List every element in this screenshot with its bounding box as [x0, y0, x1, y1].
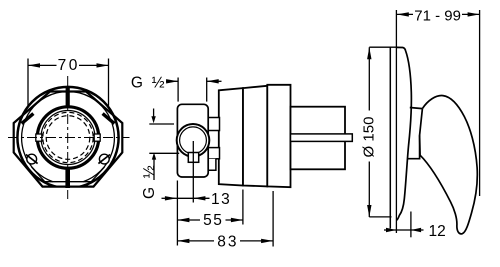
- dim O150 tick bottom: [369, 216, 391, 218]
- spigot tab: [188, 153, 198, 163]
- inlet axis line bottom: [149, 152, 179, 154]
- dim 13 left arrow shaft: [162, 197, 178, 199]
- union nut circle inner: [180, 127, 207, 154]
- nut axis line 13: [192, 141, 194, 203]
- dashed circle inner: [46, 116, 90, 160]
- dim 12 line: [396, 229, 411, 231]
- right screw slot: [98, 155, 110, 164]
- dim 71-99 line left: [396, 13, 413, 15]
- dim O150 tick top: [369, 46, 396, 48]
- dim 12 left arrow shaft: [384, 229, 396, 231]
- inlet top down-arrow head: [151, 116, 155, 123]
- inner hub circle thin: [41, 111, 95, 165]
- right key rectangle: [94, 134, 100, 141]
- dim 83 line: [177, 240, 214, 242]
- casing section 3: [267, 85, 290, 187]
- inner hub circle thick: [37, 107, 98, 168]
- dim 70 extension right: [108, 59, 110, 106]
- dashed circle outer: [43, 112, 93, 162]
- spindle: [291, 134, 353, 142]
- dim 55 right arrow head: [231, 218, 243, 222]
- horizontal centerline: [8, 137, 130, 139]
- svg-text:G ½: G ½: [131, 75, 167, 92]
- dim 70 line right: [79, 64, 109, 66]
- G1/2 top arrow right head: [207, 79, 219, 83]
- dim 71-99 arrow left: [397, 12, 409, 16]
- circle bottom sliver eraser: [53, 188, 83, 192]
- dim O150 line top: [368, 47, 370, 110]
- middle view dimensions: [149, 78, 273, 247]
- svg-text:G ½: G ½: [141, 163, 158, 199]
- dim 83 left arrow head: [177, 239, 189, 243]
- dim 12 arrow right: [411, 228, 421, 232]
- left screw slot: [26, 155, 38, 164]
- left key rectangle: [36, 134, 42, 141]
- dim 55 line: [177, 219, 200, 221]
- dimension 70: [28, 59, 109, 106]
- dim 55 left arrow head: [177, 218, 189, 222]
- svg-text:Ø 150: Ø 150: [360, 117, 377, 158]
- right view dimensions: [369, 10, 479, 237]
- outer circle (escutcheon rim): [17, 87, 118, 188]
- G1/2 top arrow left shaft: [166, 80, 178, 82]
- extension 55 right: [242, 190, 244, 225]
- extension 177: [176, 181, 178, 246]
- dim 70 line left: [28, 64, 57, 66]
- casing section 1: [219, 88, 243, 185]
- dim 13 right arrow head: [193, 196, 205, 200]
- dim 12 arrow left: [386, 228, 396, 232]
- dim O150 arrow top: [367, 47, 371, 59]
- svg-text:83: 83: [217, 233, 238, 250]
- svg-text:71 - 99: 71 - 99: [414, 7, 461, 24]
- right screw: [99, 154, 109, 164]
- plate back line / 71-99 left extension: [395, 10, 397, 233]
- G1/2 top arrow left head: [166, 79, 178, 83]
- bottom connector bar: [208, 148, 220, 159]
- casing section 2: [243, 86, 267, 187]
- inlet bottom up-arrow head: [152, 153, 156, 160]
- G1/2 top dim extension left: [177, 78, 179, 102]
- dim 71-99 line right: [462, 13, 480, 15]
- inlet axis line top: [149, 123, 174, 125]
- dim 70 extension left: [27, 59, 29, 106]
- lower elbow tab: [204, 159, 216, 171]
- dim 70 arrow left: [28, 63, 40, 67]
- svg-text:13: 13: [211, 191, 231, 208]
- upper-right chamfer emphasis bar: [103, 114, 115, 124]
- octagonal flange: [14, 92, 123, 187]
- union nut circle outer: [177, 124, 210, 157]
- upper-left chamfer emphasis bar: [22, 114, 34, 124]
- second circle (escutcheon inner rim, open at bottom flat): [22, 91, 115, 181]
- inlet top arrow shaft: [153, 109, 155, 118]
- dim 71-99 arrow right: [468, 12, 480, 16]
- wall line: [389, 47, 391, 228]
- extension 83 right: [272, 191, 274, 247]
- left screw: [27, 154, 37, 164]
- G1/2 top dim extension right: [206, 78, 208, 102]
- dim O150 arrow bottom: [367, 205, 371, 217]
- dim 12 right arrow shaft: [411, 229, 424, 231]
- svg-text:55: 55: [203, 212, 223, 229]
- bottom lug bar: [65, 167, 70, 188]
- svg-text:12: 12: [429, 223, 446, 240]
- inlet fitting block: [177, 104, 208, 177]
- dim 83 right arrow head: [261, 239, 273, 243]
- bottom flat inner contour: [32, 167, 105, 182]
- dim 71-99 extension right: [479, 10, 481, 196]
- vertical centerline: [67, 76, 69, 199]
- top lug bar: [66, 87, 70, 107]
- cartridge housing protrusion: [291, 107, 346, 170]
- top connector bar: [208, 118, 220, 131]
- escutcheon plate profile: [396, 47, 411, 220]
- dim 12 extension right: [410, 212, 412, 238]
- handle base block: [408, 108, 422, 159]
- svg-text:70: 70: [58, 57, 80, 74]
- dim O150 line bottom: [368, 162, 370, 218]
- handle lever: [420, 96, 478, 234]
- dim 70 arrow right: [97, 63, 109, 67]
- dim 13 left arrow head (G1/2 pointer): [165, 196, 177, 200]
- dim 13 line: [177, 197, 193, 199]
- G1/2 top arrow right shaft: [207, 80, 222, 82]
- dim 13 right arrow shaft: [193, 197, 209, 199]
- inlet bottom arrow shaft: [153, 158, 155, 180]
